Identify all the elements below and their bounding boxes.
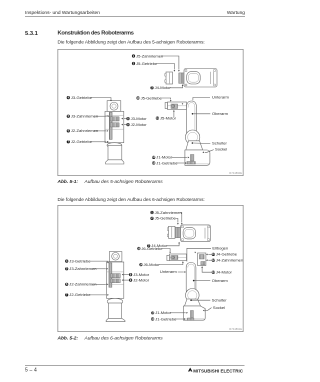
wrist flange (top view) — [169, 226, 176, 238]
svg-text:J2-Zahnriemen: J2-Zahnriemen — [69, 282, 96, 287]
leader J3-Zahnriemen — [94, 115, 107, 117]
J3 belt band — [110, 117, 119, 121]
svg-text:J5-Getriebe: J5-Getriebe — [155, 216, 177, 221]
paragraph 1 — [58, 39, 205, 45]
label J5-Getriebe (side view) — [136, 96, 139, 99]
label Oberarm — [192, 113, 194, 115]
J2 belt band — [111, 279, 121, 283]
svg-text:J3-Getriebe: J3-Getriebe — [69, 258, 91, 263]
svg-text:J3-Zahnriemen: J3-Zahnriemen — [69, 266, 96, 271]
leader J6-Getriebe — [162, 249, 170, 252]
upper arm tube — [187, 101, 197, 137]
leader J1-Motor — [172, 156, 187, 158]
label J5-Motor — [156, 117, 159, 120]
J3 gear circle — [110, 102, 118, 110]
svg-text:R744891E: R744891E — [229, 327, 242, 331]
svg-text:Oberarm: Oberarm — [212, 111, 229, 116]
leader J4-Zahnriemen — [208, 259, 211, 261]
shoulder mount — [186, 141, 203, 150]
label J2-Getriebe — [67, 140, 70, 143]
figure 2: 6-axis robot arm — [58, 205, 244, 332]
wrist / forearm housing (side view) — [168, 102, 187, 110]
column head box — [109, 252, 122, 262]
header left — [25, 10, 100, 16]
svg-text:J4-Motor: J4-Motor — [216, 269, 233, 274]
svg-text:J4-Motor: J4-Motor — [155, 85, 172, 90]
base flare — [106, 160, 124, 164]
svg-text:R744890E: R744890E — [229, 171, 242, 175]
svg-text:J2-Motor: J2-Motor — [131, 122, 148, 127]
footer rule — [25, 365, 245, 366]
wrist flange (side view) — [167, 255, 170, 260]
column body — [107, 262, 124, 298]
pedestal — [107, 298, 123, 305]
forearm housing (top view) — [181, 225, 211, 242]
leader J3-Motor — [124, 274, 129, 276]
footer logo MITSUBISHI ELECTRIC — [193, 368, 243, 373]
column body — [105, 111, 124, 142]
svg-text:J2-Motor: J2-Motor — [133, 277, 150, 282]
wrist flange (side view) — [165, 103, 167, 109]
svg-text:Schulter: Schulter — [212, 141, 227, 146]
label J6-Motor — [139, 263, 142, 266]
label J3-Zahnriemen — [67, 115, 70, 118]
svg-text:J5-Getriebe: J5-Getriebe — [141, 95, 163, 100]
label J6-Getriebe — [137, 247, 140, 250]
svg-text:J2-Getriebe: J2-Getriebe — [69, 292, 91, 297]
caption 2 — [58, 336, 163, 342]
leader J1-Getriebe — [176, 162, 185, 164]
shoulder joint — [185, 130, 199, 144]
J4 belt (hatched) in elbow — [201, 262, 205, 266]
label J1-Motor — [152, 156, 155, 159]
base housing — [183, 306, 205, 320]
label Schulter — [190, 299, 192, 301]
section number — [25, 30, 38, 37]
header rule — [25, 16, 245, 17]
leader J2-Motor — [124, 279, 129, 281]
leader Sockel — [205, 150, 214, 153]
leader J5-Getriebe — [157, 64, 174, 70]
J1 gear (hatched) — [188, 318, 194, 320]
J3 belt band — [111, 274, 121, 278]
leader J2-Zahnriemen — [94, 130, 106, 132]
svg-text:J1-Getriebe: J1-Getriebe — [156, 160, 178, 165]
svg-text:J3-Motor: J3-Motor — [131, 116, 148, 121]
label J3-Getriebe — [65, 260, 68, 263]
label J4-Motor — [147, 244, 150, 247]
figure frame — [58, 49, 243, 175]
elbow joint marker — [195, 252, 197, 253]
J5 belt (hatched, top view) — [179, 73, 184, 84]
label Schulter — [192, 142, 194, 144]
svg-text:Oberarm: Oberarm — [212, 278, 229, 283]
label J3-Zahnriemen — [65, 267, 68, 270]
paragraph 2 — [58, 197, 205, 203]
leader J3-Getriebe — [91, 98, 111, 100]
svg-text:J3-Getriebe: J3-Getriebe — [71, 95, 93, 100]
leader J2-Motor — [124, 124, 127, 126]
leader J4-Getriebe — [208, 253, 211, 255]
figure frame — [58, 205, 243, 331]
svg-text:J4-Zahnriemen: J4-Zahnriemen — [216, 257, 243, 262]
leader J5-Zahnriemen — [161, 56, 179, 70]
label Oberarm — [193, 280, 195, 282]
label J4-Getriebe — [212, 253, 215, 256]
leader Unterarm — [178, 271, 184, 273]
label J2-Motor — [126, 123, 129, 126]
vertical belt strip — [109, 263, 112, 287]
svg-text:J6-Motor: J6-Motor — [144, 262, 161, 267]
label J5-Getriebe — [132, 62, 135, 65]
J4 motor housing (top view) — [183, 228, 196, 239]
leader J4-Motor — [167, 243, 179, 246]
pedestal — [107, 143, 122, 148]
leader J5-Getriebe side — [162, 98, 171, 100]
elbow housing — [198, 253, 206, 266]
shoulder joint — [186, 289, 200, 303]
forearm joint marker — [182, 103, 184, 104]
svg-text:J5-Zahnriemen: J5-Zahnriemen — [136, 53, 163, 58]
label J3-Motor — [126, 117, 129, 120]
label J5-Zahnriemen — [150, 211, 153, 214]
leader J4-Motor — [202, 268, 211, 273]
vertical belt strip — [109, 112, 112, 139]
label J5-Zahnriemen — [132, 54, 135, 57]
svg-text:J1-Motor: J1-Motor — [155, 310, 172, 315]
leader J3-Zahnriemen — [93, 268, 106, 270]
svg-text:J1-Motor: J1-Motor — [156, 155, 173, 160]
section title — [58, 30, 134, 36]
J1 motor (hatched) — [190, 311, 193, 318]
svg-text:J5-Zahnriemen: J5-Zahnriemen — [155, 210, 182, 215]
J5 gear cluster (hatched) — [171, 104, 178, 109]
shoulder mount — [185, 299, 201, 306]
label J1-Getriebe — [152, 161, 155, 164]
leader J4-Motor — [170, 86, 183, 88]
header right — [227, 10, 245, 16]
label J1-Motor — [151, 311, 154, 314]
upper arm tube — [186, 263, 196, 296]
J4 motor housing (top view) — [187, 72, 201, 84]
svg-text:J5-Getriebe: J5-Getriebe — [136, 61, 158, 66]
label J2-Motor — [129, 279, 132, 282]
svg-text:J4-Getriebe: J4-Getriebe — [216, 252, 238, 257]
base housing — [185, 150, 210, 165]
leader J3-Motor — [124, 118, 127, 120]
label J4-Zahnriemen — [212, 259, 215, 262]
J3 gear circle — [112, 253, 120, 261]
svg-text:Schulter: Schulter — [212, 297, 227, 302]
leader J5-Getriebe — [176, 218, 178, 222]
svg-text:Sockel: Sockel — [215, 147, 227, 152]
label J4-Motor — [212, 271, 215, 274]
wrist flange (top view) — [166, 72, 173, 84]
wrist / forearm housing (side view) — [169, 254, 186, 261]
svg-text:Sockel: Sockel — [213, 305, 225, 310]
J6 gear cluster (hatched) — [171, 256, 178, 260]
figure 1: 5-axis robot arm — [58, 49, 244, 176]
column head box — [107, 101, 121, 112]
svg-text:J1-Getriebe: J1-Getriebe — [155, 316, 177, 321]
J5 belt (hatched, top view) — [175, 227, 180, 238]
leader J1-Getriebe — [174, 318, 183, 320]
label J3-Getriebe — [67, 96, 70, 99]
svg-text:Ellbogen: Ellbogen — [212, 246, 228, 251]
footer page number — [25, 368, 37, 374]
caption 1 — [58, 179, 163, 185]
svg-text:J2-Getriebe: J2-Getriebe — [71, 139, 93, 144]
svg-text:Unterarm: Unterarm — [160, 269, 177, 274]
svg-text:J6-Getriebe: J6-Getriebe — [141, 246, 163, 251]
label J5-Getriebe — [150, 217, 153, 220]
label J2-Getriebe — [65, 293, 68, 296]
label J2-Zahnriemen — [67, 129, 70, 132]
leader J1-Motor — [171, 312, 186, 314]
svg-text:Unterarm: Unterarm — [212, 95, 229, 100]
J1 gear (hatched) — [187, 162, 196, 165]
base flare — [106, 318, 125, 321]
leader Sockel — [205, 308, 211, 311]
leader J5-Motor — [173, 111, 175, 117]
label J1-Getriebe — [151, 317, 154, 320]
leader Ellbogen — [187, 248, 211, 261]
leader Unterarm — [193, 98, 210, 101]
label J2-Zahnriemen — [65, 283, 68, 286]
leader J5-Zahnriemen — [180, 213, 182, 223]
label J4-Motor — [150, 86, 153, 89]
svg-text:J3-Motor: J3-Motor — [133, 272, 150, 277]
leader J3-Getriebe — [90, 260, 109, 263]
J2 belt band — [110, 123, 119, 127]
leader J6-Motor — [159, 262, 183, 264]
J1 motor (hatched) — [190, 155, 194, 162]
leader J2-Getriebe — [90, 294, 107, 296]
label J3-Motor — [129, 273, 132, 276]
leader J2-Zahnriemen — [93, 283, 106, 285]
J4 gear (hatched) in elbow — [199, 255, 204, 260]
leader J2-Getriebe — [91, 141, 106, 143]
forearm housing (top view) — [184, 69, 217, 88]
